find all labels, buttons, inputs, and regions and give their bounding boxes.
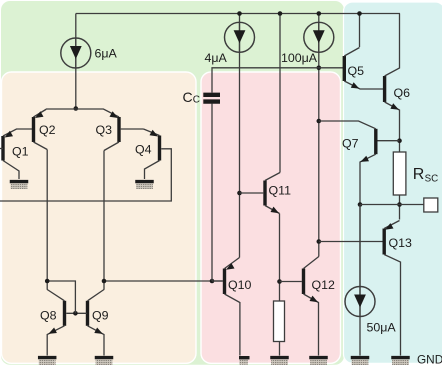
svg-text:Q5: Q5 — [348, 64, 365, 78]
svg-text:SC: SC — [425, 173, 439, 184]
svg-text:C: C — [183, 89, 193, 105]
svg-text:6μA: 6μA — [95, 47, 118, 61]
svg-text:Q1: Q1 — [12, 145, 29, 159]
svg-text:Q7: Q7 — [342, 136, 359, 150]
svg-text:100μA: 100μA — [281, 51, 318, 65]
svg-text:Q3: Q3 — [96, 123, 113, 137]
svg-text:Q4: Q4 — [135, 143, 152, 157]
svg-text:C: C — [193, 94, 200, 105]
svg-text:50μA: 50μA — [367, 321, 397, 335]
svg-text:Q13: Q13 — [389, 236, 413, 250]
svg-text:Q8: Q8 — [40, 309, 57, 323]
svg-text:R: R — [413, 166, 425, 183]
svg-text:Q12: Q12 — [312, 278, 336, 292]
svg-text:Q6: Q6 — [394, 86, 411, 100]
svg-text:Q2: Q2 — [39, 123, 56, 137]
svg-text:Q11: Q11 — [269, 184, 292, 198]
svg-text:Q9: Q9 — [92, 309, 109, 323]
svg-text:4μA: 4μA — [205, 51, 228, 65]
svg-text:Q10: Q10 — [228, 278, 252, 292]
svg-text:GND: GND — [417, 353, 442, 366]
